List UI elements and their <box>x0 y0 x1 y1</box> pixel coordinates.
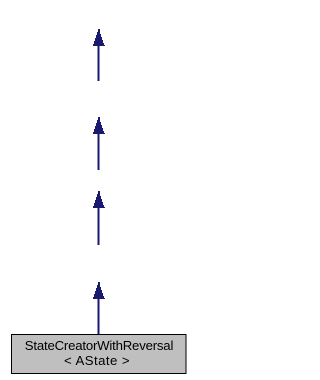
arrow 1 (top) head <box>93 29 105 46</box>
arrow 1 shaft <box>98 46 100 81</box>
node box StateCreatorWithReversal <box>12 335 187 374</box>
arrow 4 shaft <box>98 299 100 335</box>
arrow 2 head <box>93 117 105 134</box>
svg-text:StateCreatorWithReversal: StateCreatorWithReversal <box>25 338 174 353</box>
arrow 4 (bottom) head <box>93 282 105 299</box>
arrow 3 shaft <box>98 208 100 245</box>
arrow 2 shaft <box>98 134 100 170</box>
svg-text:< AState >: < AState > <box>64 353 130 368</box>
arrow 3 head <box>93 191 105 208</box>
